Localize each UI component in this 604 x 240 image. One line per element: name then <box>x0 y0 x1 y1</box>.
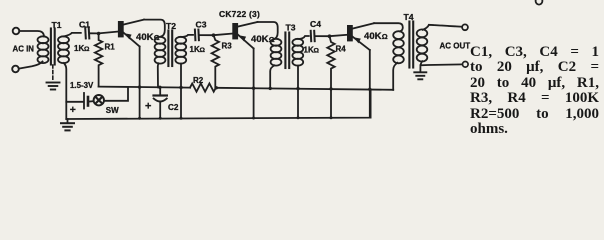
svg-text:CK722 (3): CK722 (3) <box>219 9 260 19</box>
svg-text:R4: R4 <box>336 44 347 53</box>
caption text block <box>470 45 599 137</box>
AC OUT bottom terminal <box>463 62 469 68</box>
wire: Q3 emitter down to supply/ground corner <box>369 50 371 118</box>
wire: T3 primary bottom to supply line <box>270 65 274 88</box>
svg-text:AC OUT: AC OUT <box>440 42 471 51</box>
label R3 <box>222 42 233 51</box>
svg-text:SW: SW <box>106 106 119 115</box>
wire: T3 secondary top to C4 <box>298 36 309 39</box>
transformer T4 <box>393 22 427 68</box>
svg-text:Ω: Ω <box>314 47 320 54</box>
svg-text:R3: R3 <box>222 42 233 51</box>
svg-text:AC IN: AC IN <box>13 44 35 53</box>
battery B1 1.5-3V <box>66 93 93 109</box>
wire: T2 secondary top to C3 <box>181 35 193 37</box>
svg-text:1K: 1K <box>190 45 200 54</box>
svg-text:T3: T3 <box>286 23 296 33</box>
label R4 <box>336 44 347 53</box>
node: C4/R4 junction <box>328 34 332 38</box>
node: C2/T2 primary junction <box>158 86 161 89</box>
label + (battery polarity) <box>70 104 76 116</box>
wire: switch to supply line riser <box>104 87 128 101</box>
svg-text:1K: 1K <box>304 45 314 54</box>
wire: ground rail (bottom) <box>66 89 370 119</box>
svg-text:T2: T2 <box>166 21 176 31</box>
svg-text:R2: R2 <box>193 76 204 85</box>
label T3 <box>286 23 296 33</box>
wire: Q1 emitter down to supply line <box>139 47 141 119</box>
svg-text:T1: T1 <box>52 20 62 30</box>
svg-text:C1: C1 <box>79 20 90 30</box>
svg-text:+: + <box>145 101 151 113</box>
page remnant glyph top right <box>536 0 543 5</box>
label R2 <box>193 76 204 85</box>
label C1 <box>79 20 90 30</box>
label T2 <box>166 21 176 31</box>
transformer T2 <box>155 31 187 67</box>
node: R3/R2 junction <box>215 86 218 89</box>
label C2 <box>168 103 179 112</box>
wire: C3 to Q2 base <box>199 34 232 36</box>
wire: T4 primary bottom to supply line end <box>393 63 397 90</box>
svg-text:40K: 40K <box>364 31 382 42</box>
wire: T1 secondary bottom down to battery rail <box>64 63 67 119</box>
svg-text:Ω: Ω <box>84 46 90 53</box>
transformer T1 <box>38 29 70 65</box>
node: R4/supply crossing <box>329 87 332 90</box>
label 1.5-3V <box>70 81 94 90</box>
capacitor C1 <box>85 27 89 38</box>
resistor R1 <box>95 34 102 87</box>
label 40KΩ (T2 primary) <box>136 32 160 43</box>
svg-text:C2: C2 <box>168 103 179 112</box>
svg-text:R1: R1 <box>105 43 116 52</box>
svg-text:T4: T4 <box>404 12 414 22</box>
label AC IN <box>13 44 35 53</box>
label 40KΩ (T4 primary) <box>364 31 388 42</box>
label + (C2 polarity) <box>145 101 151 113</box>
svg-text:1.5-3V: 1.5-3V <box>70 81 94 90</box>
label 40KΩ (T3 primary) <box>251 34 275 45</box>
svg-text:40K: 40K <box>251 34 269 45</box>
capacitor C3 <box>195 30 199 41</box>
node: T2 secondary/supply crossing <box>179 86 182 89</box>
svg-text:1K: 1K <box>74 44 84 53</box>
node: C1/R1 junction <box>97 32 101 36</box>
label 1KΩ (T2 secondary) <box>190 45 206 54</box>
svg-text:Ω: Ω <box>382 32 388 41</box>
node: rail junctions <box>138 116 332 120</box>
wire: T1 secondary top to C1 <box>64 33 81 37</box>
label SW <box>106 106 119 115</box>
capacitor C2 (electrolytic) <box>154 88 167 119</box>
node: emitter2/supply crossing <box>252 87 255 90</box>
wire: C4 to Q3 base <box>315 35 347 36</box>
resistor R2 <box>190 84 216 92</box>
wire: T4 secondary top to AC OUT top terminal <box>423 25 462 30</box>
label 1KΩ (T1 secondary) <box>74 44 90 53</box>
wire: top terminal to T1 primary top <box>19 31 44 37</box>
AC OUT top terminal <box>462 24 468 30</box>
transformer T3 <box>271 33 304 69</box>
wire: T4 secondary bottom to ground and AC OUT bottom <box>420 61 462 71</box>
wire: T3 secondary bottom down to ground rail <box>297 66 299 118</box>
svg-text:C4: C4 <box>310 19 321 29</box>
wire: T2 primary bottom to supply line <box>157 63 160 87</box>
transistor Q2 (CK722) <box>232 22 257 49</box>
ground (main rail) <box>61 119 74 130</box>
transistor Q3 (CK722) <box>347 23 374 50</box>
wire: Q2 emitter down to ground rail <box>253 49 255 119</box>
svg-text:40K: 40K <box>136 32 154 43</box>
wire: C1 to Q1 base <box>90 32 118 34</box>
capacitor C4 <box>311 31 315 41</box>
ground (T1 core, dashed) <box>47 65 60 90</box>
resistor R4 <box>327 36 334 118</box>
wire: Q1 collector hump to T2 primary top <box>144 20 165 37</box>
wire: Q3 collector hump to T4 primary top <box>374 23 403 31</box>
ground (T4 secondary) <box>414 72 426 79</box>
label R1 <box>105 43 116 52</box>
transistor Q1 (CK722) <box>118 20 144 47</box>
svg-text:+: + <box>70 104 76 116</box>
node: T3 primary/supply junction <box>269 87 272 90</box>
AC IN bottom terminal <box>12 66 19 73</box>
node: T3 secondary/supply crossing <box>296 87 299 90</box>
label CK722 (3) <box>219 9 260 19</box>
svg-text:C3: C3 <box>196 19 207 29</box>
node: emitter1/supply junction <box>138 85 141 88</box>
svg-text:Ω: Ω <box>200 47 206 54</box>
node: C3/R3 junction <box>212 33 216 37</box>
AC IN top terminal <box>13 28 20 35</box>
node: emitter3/supply junction <box>368 88 371 91</box>
label C3 <box>196 19 207 29</box>
wire: T2 secondary bottom down to ground rail <box>180 64 182 119</box>
wire: Q2 collector hump to T3 primary top <box>258 22 278 39</box>
label T1 <box>52 20 62 30</box>
label T4 <box>404 12 414 22</box>
resistor R3 <box>212 35 219 88</box>
label AC OUT <box>440 42 471 51</box>
label C4 <box>310 19 321 29</box>
wire: bottom terminal to T1 primary bottom <box>19 62 43 69</box>
switch SW <box>94 95 104 105</box>
wire: supply line (R1 bottom across to T4 primary) <box>99 87 394 90</box>
label 1KΩ (T3 secondary) <box>304 45 320 54</box>
